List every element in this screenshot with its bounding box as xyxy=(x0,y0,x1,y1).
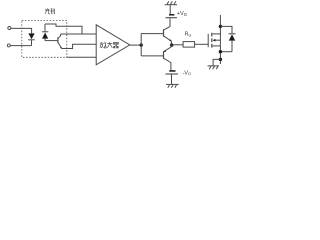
label optocoupler 光耦 xyxy=(45,8,55,14)
diode D3 freewheeling xyxy=(229,34,236,52)
wire input+ to LED anode xyxy=(11,28,32,33)
wire drain node to diode cathode xyxy=(220,26,232,33)
wire LED cathode to T2 xyxy=(10,45,31,47)
wire output node to RG xyxy=(172,44,183,46)
wire common to amplifier bottom input xyxy=(67,56,96,58)
node D junction dot xyxy=(219,25,222,28)
wire emitter to amplifier middle input xyxy=(62,44,96,48)
wire base split vertical xyxy=(140,34,142,56)
drain-source bus vertical xyxy=(219,15,221,64)
op-amp U1 amplifier triangle xyxy=(96,25,130,65)
wire photodiode anode to base xyxy=(45,40,58,42)
battery B2 -VG xyxy=(166,70,179,84)
earth symbol top xyxy=(165,1,177,14)
earth symbol bottom xyxy=(166,84,179,87)
node A junction dot xyxy=(140,43,143,46)
wire to Q2 base xyxy=(141,33,163,35)
transistor Q3 PNP bottom xyxy=(164,45,172,70)
MOSFET M1 xyxy=(208,33,220,48)
svg-text:RG: RG xyxy=(185,32,192,38)
wire source node to ground xyxy=(213,59,220,65)
phototransistor Q1 xyxy=(58,34,62,49)
transistor Q2 NPN top xyxy=(164,18,172,45)
wire diode anode to source node xyxy=(220,51,232,53)
optocoupler dashed box xyxy=(22,21,67,58)
svg-text:-VG: -VG xyxy=(183,71,192,77)
input terminal T2 xyxy=(7,44,10,47)
node S1 junction dot xyxy=(219,50,222,53)
label amplifier 放大器 xyxy=(100,42,119,48)
wire amplifier output xyxy=(130,44,141,46)
input terminal T1 xyxy=(8,27,11,30)
wire collector to amplifier top input xyxy=(61,33,97,35)
photodiode D2 xyxy=(42,24,48,41)
wire to Q3 base xyxy=(141,55,163,57)
LED D1 (emitter diode) xyxy=(28,33,35,45)
svg-text:+VG: +VG xyxy=(177,11,187,17)
mid node junction dot xyxy=(170,43,173,46)
wire photodiode cathode top xyxy=(45,24,82,34)
wire RG to gate xyxy=(195,43,209,45)
node S2 junction dot xyxy=(219,58,222,61)
ground earth symbol right xyxy=(208,66,220,69)
resistor RG xyxy=(183,42,195,48)
battery B1 +VG xyxy=(166,14,177,18)
